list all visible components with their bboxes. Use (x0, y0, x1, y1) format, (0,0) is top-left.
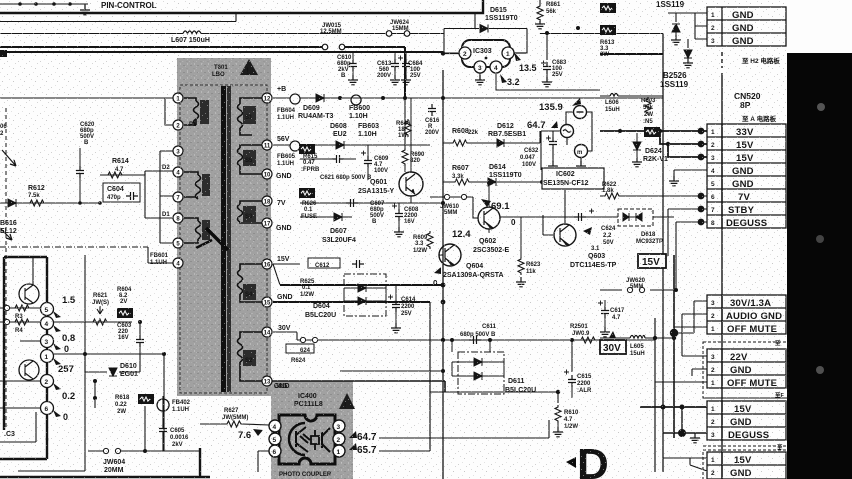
T601 winding S3 (238, 201, 263, 223)
ground C613 (390, 75, 400, 85)
wire R690 drop (404, 98, 406, 145)
resistor R690 (402, 148, 408, 166)
wire secondary vertical (673, 255, 675, 438)
wire Q601 collector-emitter (410, 98, 412, 203)
wire IC400 pin3 stub (258, 451, 269, 472)
T601 winding S2 (238, 332, 263, 381)
wire +B secondary bus (273, 97, 443, 99)
wire D2 line to pin4 (145, 170, 173, 172)
wire top bus to D615 (0, 0, 483, 13)
wire bottom rail (0, 448, 210, 477)
wire STBY drop (668, 209, 707, 256)
wire R607 row (443, 181, 542, 183)
jumper JW624b (300, 337, 317, 342)
wire C615 stub (571, 340, 573, 372)
jumper JW604 (103, 448, 120, 453)
probe 65.7 IC400 (349, 443, 357, 450)
wire gnd pin4 feed (674, 170, 707, 179)
ground C684 (401, 75, 411, 85)
wire corner chain rail (0, 438, 47, 459)
wire Q602 net (430, 197, 478, 218)
scan tick left edge (0, 50, 7, 57)
wire pin15 gnd heavy rail (273, 301, 430, 303)
fusible resistor R626 box (299, 188, 315, 198)
ground C617 (600, 327, 610, 337)
wire 30V L605 line (600, 337, 674, 339)
probe 135.9 (572, 98, 581, 106)
left probe chain transistor Q upper (19, 284, 39, 304)
ground R861 (535, 19, 545, 29)
probe 30V (609, 331, 616, 338)
wire 7V feed (600, 195, 707, 197)
T601 pin 4 (173, 167, 183, 177)
transformer core (221, 86, 226, 392)
wire IC303 pin4 down (496, 74, 600, 90)
probe arrow upper left (2, 150, 16, 166)
diode D609 (316, 94, 324, 102)
connector 30V/audio table frame (707, 295, 786, 334)
wire C683 drop (546, 33, 548, 60)
T601 pin 7 (173, 192, 183, 202)
wire D615 branch box (444, 14, 527, 54)
probe 7.6 (253, 429, 263, 436)
transistor Q603 (554, 224, 576, 246)
IC400 pin 2 (333, 433, 345, 445)
op-amp IC303 body (462, 40, 510, 67)
IC400 pin 5 (269, 433, 281, 445)
screw hole highlight 3 (816, 366, 824, 374)
capacitor C624 (574, 213, 586, 221)
wire bottom 15V pin feed (663, 458, 707, 471)
connector CNH2 GND table frame (707, 7, 786, 46)
resistor R603 (645, 97, 651, 115)
ground IC303 pin3 (475, 75, 485, 85)
wire 22V off-mute pin feed (655, 381, 707, 383)
wire Q601 to bus line (300, 202, 443, 204)
T601 pin 11 (262, 140, 272, 150)
T601 pin 16 (262, 259, 272, 269)
capacitor C632 (549, 137, 557, 149)
diode D615 (480, 25, 488, 33)
resistor R3 (13, 305, 31, 311)
wire left net R612 (0, 202, 100, 204)
wire Q603 base (543, 215, 553, 235)
T601 core gap stroke (206, 228, 228, 250)
IC400 photocoupler shaded body (271, 381, 353, 479)
wire meter loop (553, 112, 592, 151)
wire D1 line to pin8 (145, 171, 173, 218)
wire L606 row (600, 95, 663, 97)
wire probe junction vertical (145, 354, 164, 451)
diode B2526 (684, 50, 692, 58)
IC303 pin 1 (502, 47, 514, 59)
wire R614 segment (100, 171, 145, 175)
wire Q604 row (439, 254, 443, 256)
scan black margin band right (787, 53, 852, 479)
wire mid link (430, 391, 558, 393)
boxed net 30V (600, 340, 626, 354)
wire FB402 stub (162, 396, 164, 451)
wire 65.7 output line (379, 450, 430, 452)
wire AUDIO GND pin feed (682, 314, 707, 356)
diode D612 (497, 139, 504, 147)
pin numbers and net labels: 30V connector (711, 298, 782, 335)
inductor L607 (183, 31, 201, 34)
fusible resistor R615 box (299, 144, 315, 154)
jumper JW620 (627, 287, 644, 292)
ground C610 (348, 75, 358, 85)
wire pin3/7/5 rail (160, 151, 173, 243)
pin numbers and net labels: bottom 15V connector (711, 455, 752, 479)
wire FB601 link to pin 4 (148, 247, 173, 263)
T601 winding D2 (184, 172, 201, 199)
wire L607 bus (0, 33, 663, 35)
wire R2501 segment (578, 339, 600, 341)
diode pack D611 dash-dot box (458, 352, 504, 394)
probe node 2 (41, 375, 54, 388)
T601 pin 10 (262, 169, 272, 179)
wire R627 line (200, 424, 269, 425)
IC400 LED arrow (289, 423, 305, 455)
transistor Q604 (439, 244, 461, 266)
wire 30V long line (443, 339, 655, 341)
IC303 pin 4 (490, 61, 502, 73)
resistor R610 (555, 405, 561, 423)
capacitor C621 (332, 155, 344, 163)
wire left small vertical (94, 381, 96, 408)
diode D607 (334, 213, 342, 221)
wire corner inner (0, 412, 36, 442)
ground row4 GND (669, 176, 679, 186)
wire Q602 collector (489, 186, 594, 233)
T601 pin 6 (173, 258, 183, 268)
wire gnd table feeds (668, 13, 707, 48)
meter circle ac (561, 125, 574, 138)
dashed board boundary around 15V/deguss connector (703, 398, 788, 446)
wire center vertical bus 2 (429, 302, 431, 451)
probe arrow D616 (0, 228, 12, 240)
resistor R861 (537, 4, 543, 22)
IC303 pin 3 (474, 61, 486, 73)
board boundary dashed stub (721, 52, 723, 68)
wire IC303 drops (465, 47, 508, 53)
meter circle minus (574, 106, 587, 119)
IC400 pin 4 (269, 420, 281, 432)
wire 22V gnd pin feed (692, 369, 707, 376)
R624 box (286, 344, 314, 353)
capacitor C684 (398, 56, 403, 61)
T601 winding D1 (184, 218, 201, 243)
wire secondary vertical 2 (654, 318, 656, 472)
regulator IC602 box (542, 168, 604, 189)
boxed net 15V (638, 254, 666, 268)
probe 64.7 IC400 (349, 431, 357, 438)
resistor R2501 (579, 337, 597, 343)
probe node 1 (41, 350, 54, 363)
diode top right with ground (672, 24, 680, 32)
ground C632 (548, 161, 558, 171)
probe at IC303 pin1 (514, 52, 521, 61)
wire IC303 pin1 stub (443, 52, 527, 55)
probe node 3 (41, 335, 54, 348)
diode D608 (336, 141, 344, 149)
ground pin-control (80, 5, 90, 15)
dashed boundary left (5, 108, 7, 430)
probe Q603 base (583, 227, 592, 235)
transistor Q602 (478, 207, 500, 229)
wire 30V jumper line (297, 339, 443, 341)
wire meter gnd drop (580, 157, 582, 164)
IC400 pin 1 (333, 445, 345, 457)
T601 pin 8 (173, 213, 183, 223)
ground R610 (553, 427, 563, 437)
wire pin-control net (0, 3, 88, 5)
capacitor C620 leg (79, 148, 81, 203)
diode pack D604 dash-dot box (344, 274, 386, 316)
fusible resistor R625b (644, 127, 660, 137)
wire 15V pin feed heavy (640, 406, 707, 408)
probe Q604 (434, 267, 441, 274)
screw hole highlight 1 (817, 103, 825, 111)
wire diode pack row (586, 216, 674, 218)
diode D624 (633, 142, 641, 150)
inductor L606 (610, 94, 618, 97)
wire D611 box top links (452, 340, 490, 352)
ground R623 (516, 277, 526, 287)
resistor R614 (106, 172, 124, 178)
wire upper stub bus (0, 14, 236, 22)
wire JW620 line (600, 289, 676, 291)
wire cap gnd bus (0, 52, 663, 54)
transformer T601 shaded body (177, 58, 271, 396)
meter circle m (575, 145, 588, 158)
wire DEGUSS drop (676, 222, 707, 290)
diode pack D617 dashed box (618, 209, 653, 226)
fusible resistor R613 (600, 25, 616, 35)
probe at IC303 pin4 (500, 74, 507, 83)
probe 64.7 (551, 121, 558, 128)
T601 winding S5 (238, 145, 263, 174)
connector 22V table frame (707, 349, 786, 388)
jumper JW015 (322, 44, 328, 50)
ferrite FB600 (351, 95, 361, 105)
fusible resistor R612b (600, 3, 616, 13)
wire pin2 link (165, 98, 173, 125)
wire 56V line (273, 144, 430, 146)
connector 15V/deguss table frame (707, 401, 786, 440)
wire jw015 bus (0, 47, 405, 98)
connector bottom 15V table frame (707, 452, 786, 479)
wire C603 row (54, 322, 140, 335)
capacitor C683 (543, 62, 551, 74)
wire pin13 gnd run (272, 381, 445, 392)
wire deguss pin feed (663, 407, 707, 433)
wire center vertical bus (442, 70, 444, 479)
junction IC303 pin2 (441, 51, 445, 55)
wire dashed boundary row (0, 246, 148, 248)
diode D616 (8, 199, 16, 207)
wire D610 branch (85, 354, 140, 372)
resistor R607 (453, 179, 471, 185)
FB604 ferrite bead (290, 94, 300, 104)
dashed board boundary around bottom 15V connector (703, 450, 788, 479)
jumper JW624 (386, 31, 392, 37)
T601 pin 5 (173, 238, 183, 248)
T601 pin 13 (262, 376, 272, 386)
wire left net rows (0, 308, 164, 408)
T601 pin 18 (262, 196, 272, 206)
capacitor C617 (598, 301, 603, 306)
wire pin16 15V feed (273, 264, 300, 285)
wire left mid vertical (84, 255, 86, 372)
T601 winding S1 (238, 98, 263, 135)
T601 pin 15 (262, 297, 272, 307)
T601 pin 12 (262, 93, 272, 103)
FB605 ferrite bead (290, 141, 300, 151)
T601 winding S4 (238, 264, 263, 302)
wire D611 bottom link (340, 371, 443, 392)
wire left probe chain rail (4, 257, 47, 440)
probe node 6 (41, 402, 54, 415)
IC400 pin 6 (269, 445, 281, 457)
T601 pin 3 (173, 146, 183, 156)
pin numbers and net labels: GND table (711, 10, 754, 47)
wire base bus Q601 (300, 145, 443, 158)
ground meter (576, 161, 586, 171)
wire bottom JW604 net (88, 406, 200, 451)
pin numbers and net labels: CN520 (711, 127, 767, 229)
IC400 pin 3 (333, 420, 345, 432)
wire main vertical bus at IC boundary (662, 34, 664, 473)
wire 33V feed staircase (600, 131, 707, 157)
resistor R622 (603, 193, 621, 199)
T601 pin 1 (173, 93, 183, 103)
capacitor C608 (392, 204, 397, 209)
resistor R623 (518, 257, 524, 275)
wire IC602 link (564, 190, 566, 223)
capacitor C604 box (103, 183, 140, 202)
wire +B bus right segment (443, 97, 663, 99)
section marker D (566, 457, 576, 468)
wire R861 drop (539, 0, 541, 4)
dashed board boundary around 22V connector (703, 342, 788, 398)
T601 pin 2 (173, 120, 183, 130)
diode D610 (109, 368, 117, 376)
screw hole highlight 2 (816, 235, 824, 243)
diode D614 (488, 178, 496, 186)
capacitor C607 (346, 199, 358, 207)
capacitor C614 (388, 295, 393, 300)
wire C632 drop (541, 131, 553, 170)
FB402 ferrite bead (157, 399, 169, 411)
probe node 5 (41, 303, 54, 316)
probe 69.1 (481, 199, 491, 207)
wire 64.7 output line (379, 437, 549, 439)
left probe chain transistor Q lower (19, 360, 39, 380)
wire 30V/1.3A pin feed (674, 301, 707, 333)
resistor R4 (13, 319, 31, 325)
transformer T601 inner dashed border (180, 85, 267, 393)
IC303 pin 2 (459, 47, 471, 59)
wire C611 branch (442, 339, 444, 341)
warning triangle on IC400 (339, 393, 355, 409)
jumper JW610 (444, 194, 449, 199)
capacitor C609 (361, 151, 366, 156)
pin numbers and net labels: 15V/deguss connector (711, 404, 769, 441)
board boundary line (vertical through connectors) (721, 73, 723, 479)
warning triangle on T601 (240, 59, 258, 75)
resistor R612 (28, 200, 46, 206)
probe node 4 (41, 317, 54, 330)
connector bullets CN520 (698, 128, 705, 135)
resistor R608 (451, 140, 469, 146)
transistor Q601 (399, 172, 423, 196)
resistor R627 (225, 421, 243, 427)
capacitor C605 (159, 424, 167, 436)
T601 pin 17 (262, 218, 272, 228)
opto-coupler IC400 body (279, 415, 335, 464)
inductor L605 (630, 336, 645, 339)
wire pin14 30V feed (273, 332, 297, 340)
wire R610 stub (549, 392, 558, 438)
wire left rail to pin1 (0, 97, 173, 99)
connector stub circles (4, 305, 9, 310)
T601 pin 14 (262, 327, 272, 337)
ground C683 (542, 77, 552, 87)
ground deguss row (690, 433, 700, 443)
pin numbers and net labels: 22V connector (711, 352, 777, 389)
wire 15V heavy rail (280, 284, 443, 286)
wire OFF MUTE pin feed (674, 326, 707, 328)
T601 primary winding P1 (184, 98, 199, 125)
capacitor C615 (564, 370, 569, 375)
wire corner outer (18, 372, 85, 471)
wire R608 row (443, 131, 540, 143)
resistor R609 (427, 231, 433, 249)
connector CN520 table frame (707, 124, 786, 228)
